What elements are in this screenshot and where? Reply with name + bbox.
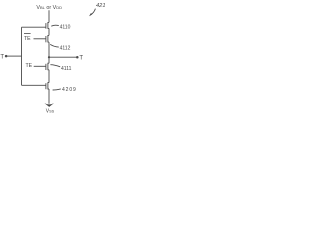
label 4112 — [60, 46, 71, 52]
ground arrow (VSS) — [44, 103, 54, 107]
label 4111 — [61, 66, 72, 72]
transistor 4209 (NMOS) — [46, 83, 49, 90]
svg-text:VSS: VSS — [46, 108, 55, 114]
wire: output branch — [49, 56, 76, 58]
wire: left input rail — [21, 27, 23, 85]
leader for 4112 — [50, 44, 59, 47]
wire: rail between 4110 and 4112 — [48, 28, 50, 35]
wire: input lead — [7, 55, 22, 57]
figure numeral 421 — [96, 3, 106, 9]
svg-text:T: T — [0, 55, 4, 61]
svg-text:421: 421 — [96, 3, 106, 9]
svg-text:VBL or VDD: VBL or VDD — [36, 5, 62, 11]
label VSS — [46, 108, 55, 114]
svg-text:4112: 4112 — [60, 46, 71, 52]
label 4209 — [62, 87, 77, 93]
wire: gate lead of 4209 — [22, 84, 46, 86]
wire: rail between 4111 and 4209 — [48, 70, 50, 83]
leader for 4111 — [50, 65, 60, 67]
node T (output) — [79, 55, 83, 61]
svg-text:4111: 4111 — [61, 66, 72, 72]
wire: gate lead of 4112 — [34, 38, 46, 40]
svg-text:4110: 4110 — [60, 24, 71, 30]
input terminal dot — [5, 55, 8, 58]
wire: gate lead of 4111 — [34, 65, 46, 67]
junction on rail at output — [48, 56, 50, 58]
svg-text:T: T — [79, 55, 83, 61]
transistor 4110 (PMOS) — [46, 22, 49, 28]
transistor 4111 (NMOS) — [46, 63, 49, 70]
svg-text:TE: TE — [26, 63, 33, 69]
node TE-bar label with overline — [24, 34, 31, 42]
transistor 4112 (PMOS) — [46, 35, 49, 42]
svg-text:4209: 4209 — [62, 87, 77, 93]
label 4110 — [60, 24, 71, 30]
leader for 4209 — [53, 89, 61, 90]
wire: supply rail top — [48, 10, 50, 22]
wire: gate lead of 4110 — [22, 26, 46, 28]
supply label VBL or VDD — [36, 5, 62, 11]
wire: rail to ground — [48, 89, 50, 104]
svg-text:TE: TE — [24, 36, 31, 42]
output terminal dot — [76, 56, 79, 59]
node T (input) — [0, 55, 4, 61]
leader for 4110 — [51, 24, 59, 27]
leader arrow for 421 — [89, 9, 95, 17]
node TE label — [26, 63, 33, 69]
wire: rail between 4112 and 4111 — [48, 42, 50, 63]
